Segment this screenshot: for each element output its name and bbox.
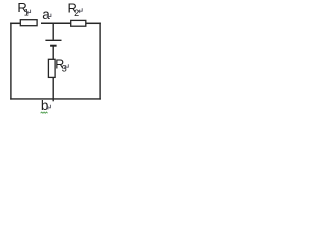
grammar squiggle under b: [41, 112, 48, 113]
paragraph mark after R2: [79, 8, 83, 13]
svg-text:a: a: [42, 7, 50, 22]
wire top-right segment: [85, 22, 101, 24]
svg-text:2: 2: [74, 8, 79, 18]
wire top-middle segment (node a to R2): [41, 22, 72, 24]
paragraph mark after a: [47, 14, 51, 19]
wire top-left segment: [10, 22, 21, 24]
wire R3 to bottom (node b), with stub below bottom wire: [52, 77, 54, 101]
resistor R1: [20, 20, 37, 26]
resistor R3: [48, 59, 55, 77]
wire branch from node a down to battery: [52, 23, 54, 40]
resistor R2: [71, 20, 86, 26]
wire battery to R3: [52, 46, 54, 60]
paragraph mark after R3: [65, 64, 69, 69]
wire right side: [99, 23, 101, 100]
wire left side: [10, 23, 12, 100]
battery short plate (negative): [50, 45, 57, 47]
wire bottom: [10, 98, 101, 100]
svg-text:b: b: [41, 98, 49, 113]
battery long plate (positive): [45, 39, 61, 41]
paragraph mark after R1: [27, 10, 31, 15]
paragraph mark after b: [47, 105, 51, 110]
